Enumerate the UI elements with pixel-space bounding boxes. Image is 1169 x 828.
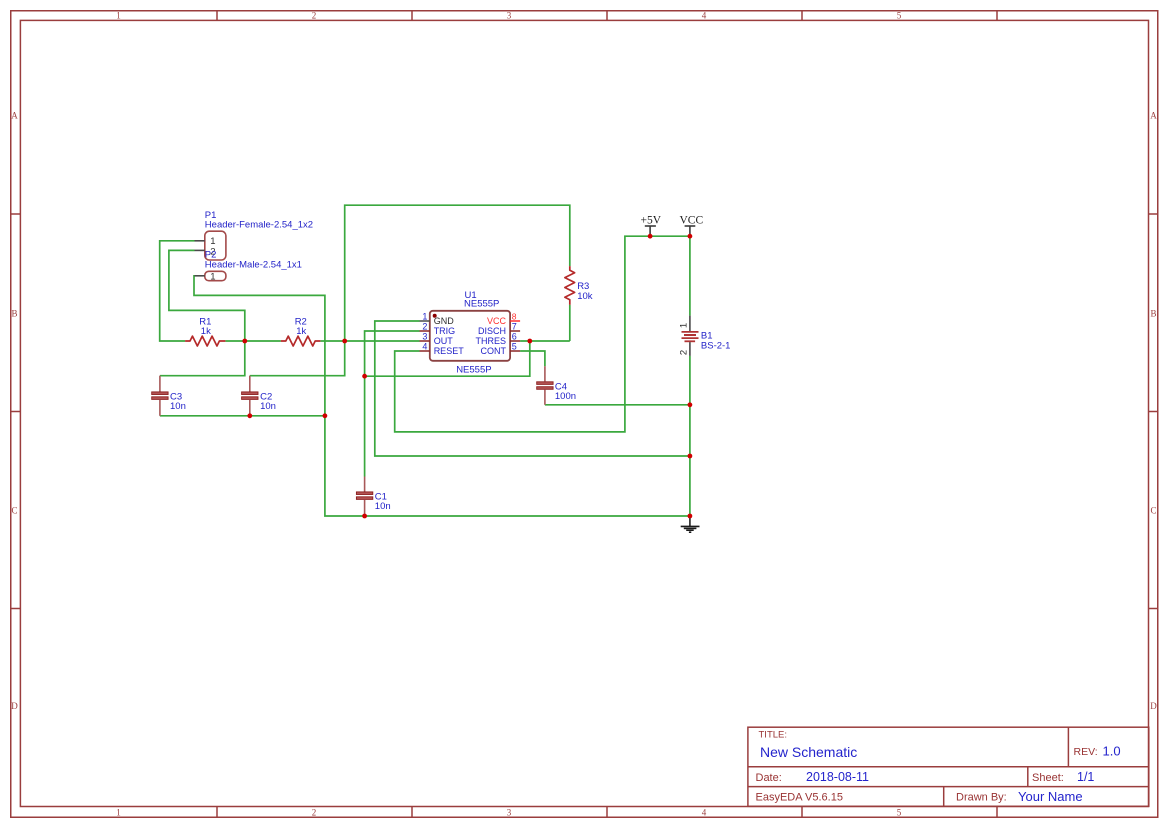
- U1 pin 7: [510, 330, 520, 332]
- svg-text:NE555P: NE555P: [456, 365, 491, 376]
- svg-text:+5V: +5V: [641, 214, 662, 226]
- wire net dot down to C1 top: [364, 376, 366, 476]
- resistor R3: [565, 266, 593, 305]
- wire R3 bottom to pin6 row: [569, 305, 571, 341]
- svg-text:8: 8: [512, 312, 517, 322]
- svg-text:1: 1: [210, 272, 215, 283]
- wires: [160, 205, 690, 516]
- wire battery pin2 down to ground: [689, 356, 691, 516]
- svg-text:BS-2-1: BS-2-1: [701, 340, 731, 351]
- svg-text:2: 2: [312, 808, 317, 818]
- svg-text:2: 2: [679, 350, 690, 355]
- node OUT net crossing: [342, 339, 347, 344]
- capacitor C1: [356, 477, 390, 517]
- node +5V tap: [648, 234, 653, 239]
- svg-text:DISCH: DISCH: [478, 326, 506, 336]
- wire R1 right to R2 left: [225, 340, 281, 342]
- battery B1: [679, 316, 731, 356]
- svg-text:10k: 10k: [577, 291, 593, 302]
- svg-text:1/1: 1/1: [1077, 770, 1094, 784]
- svg-text:EasyEDA V5.6.15: EasyEDA V5.6.15: [756, 792, 843, 804]
- node TRIG-THRES-C1: [362, 374, 367, 379]
- svg-text:NE555P: NE555P: [464, 299, 499, 310]
- resistor R1: [185, 317, 225, 346]
- title block: [748, 727, 1149, 806]
- wire P1 pin1 to R1 left: [160, 241, 195, 341]
- svg-text:1: 1: [116, 808, 121, 818]
- ground: [681, 516, 700, 532]
- node ground junction: [688, 514, 693, 519]
- svg-text:CONT: CONT: [481, 346, 507, 356]
- U1 pin 4: [420, 350, 430, 352]
- capacitor C2: [242, 376, 276, 416]
- svg-text:10n: 10n: [260, 401, 276, 412]
- svg-text:3: 3: [422, 332, 427, 342]
- svg-text:1k: 1k: [296, 326, 306, 337]
- node C1 bottom: [362, 514, 367, 519]
- svg-text:4: 4: [702, 808, 707, 818]
- svg-text:10n: 10n: [375, 501, 391, 512]
- svg-text:New Schematic: New Schematic: [760, 744, 857, 760]
- svg-text:2018-08-11: 2018-08-11: [806, 770, 869, 784]
- node R1-R2 junction: [242, 339, 247, 344]
- node gnd rail right: [688, 454, 693, 459]
- svg-text:4: 4: [422, 342, 427, 352]
- op-amp U1 NE555P: [420, 290, 521, 376]
- node VCC tap: [688, 234, 693, 239]
- junction dots: [242, 234, 692, 519]
- node C2 bottom: [247, 413, 252, 418]
- svg-text:6: 6: [512, 332, 517, 342]
- svg-text:D: D: [11, 701, 18, 711]
- connector P1: [195, 210, 314, 260]
- svg-text:4: 4: [702, 11, 707, 21]
- U1 pin 5: [510, 350, 520, 352]
- svg-text:1k: 1k: [201, 326, 211, 337]
- svg-text:A: A: [11, 111, 18, 121]
- svg-text:VCC: VCC: [487, 316, 507, 326]
- svg-text:OUT: OUT: [434, 336, 454, 346]
- svg-text:100n: 100n: [555, 391, 576, 402]
- wire VCC to battery pin1: [689, 236, 691, 315]
- svg-text:1: 1: [210, 236, 215, 247]
- wire R2 right to U1 pin3 OUT: [320, 340, 419, 342]
- wire junction down to C3 top: [160, 341, 245, 376]
- svg-text:5: 5: [512, 342, 517, 352]
- U1 pin 6: [510, 340, 520, 342]
- svg-text:Header-Male-2.54_1x1: Header-Male-2.54_1x1: [205, 259, 302, 270]
- node gnd rail left: [323, 413, 328, 418]
- svg-text:GND: GND: [434, 316, 455, 326]
- svg-text:Date:: Date:: [756, 772, 782, 784]
- connector P2: [195, 250, 302, 283]
- svg-text:THRES: THRES: [475, 336, 506, 346]
- capacitor C4: [537, 366, 576, 405]
- svg-text:REV:: REV:: [1074, 746, 1098, 758]
- U1 pin1 marker dot: [433, 314, 437, 318]
- svg-text:A: A: [1150, 111, 1157, 121]
- svg-text:C: C: [11, 506, 17, 516]
- wire pin6 junction down to THRES-TRIG net: [365, 341, 530, 376]
- wire P2 pin to ground rail: [194, 276, 690, 516]
- node THRES pin6: [527, 339, 532, 344]
- svg-text:D: D: [1150, 701, 1157, 711]
- svg-text:Your Name: Your Name: [1018, 789, 1083, 804]
- svg-text:Sheet:: Sheet:: [1032, 772, 1064, 784]
- wire pin6 THRES to R3: [520, 340, 570, 342]
- node C4 bottom rail: [688, 402, 693, 407]
- svg-text:1: 1: [422, 312, 427, 322]
- svg-text:2: 2: [312, 11, 317, 21]
- svg-text:Header-Female-2.54_1x2: Header-Female-2.54_1x2: [205, 220, 313, 231]
- power flag +5V: [641, 214, 662, 236]
- svg-text:3: 3: [507, 808, 512, 818]
- svg-text:5: 5: [897, 808, 902, 818]
- U1 pin 1: [420, 320, 430, 322]
- svg-text:TRIG: TRIG: [434, 326, 456, 336]
- svg-text:VCC: VCC: [680, 214, 704, 226]
- svg-text:B: B: [11, 309, 17, 319]
- svg-text:2: 2: [422, 322, 427, 332]
- wire U1 pin2 TRIG down to net dot: [365, 331, 420, 376]
- wire C2 top to OUT net and R3 top: [250, 205, 570, 376]
- svg-text:1.0: 1.0: [1103, 744, 1121, 759]
- svg-text:B: B: [1150, 309, 1156, 319]
- wire U1 pin5 CONT to C4 top: [520, 351, 545, 366]
- wire bottom left C3-C2 ground segment: [160, 415, 325, 417]
- svg-text:3: 3: [507, 11, 512, 21]
- svg-text:RESET: RESET: [434, 346, 465, 356]
- svg-text:5: 5: [897, 11, 902, 21]
- svg-text:1: 1: [116, 11, 121, 21]
- U1 pin 8: [510, 320, 520, 322]
- wire P1 pin2 to R1-R2 junction: [169, 250, 245, 341]
- power flag VCC: [680, 214, 704, 236]
- svg-text:Drawn By:: Drawn By:: [956, 792, 1007, 804]
- svg-text:10n: 10n: [170, 401, 186, 412]
- U1 pin 3: [420, 340, 430, 342]
- wire C4 bottom to battery rail: [545, 404, 690, 406]
- capacitor C3: [152, 376, 186, 416]
- svg-text:1: 1: [679, 323, 690, 328]
- svg-text:C: C: [1150, 506, 1156, 516]
- wire U1 pin1 GND to battery minus rail: [375, 321, 690, 456]
- svg-text:7: 7: [512, 322, 517, 332]
- svg-text:TITLE:: TITLE:: [759, 730, 788, 741]
- U1 pin 2: [420, 330, 430, 332]
- wire U1 pin4 RESET to +5V rail: [395, 236, 690, 432]
- resistor R2: [281, 317, 321, 346]
